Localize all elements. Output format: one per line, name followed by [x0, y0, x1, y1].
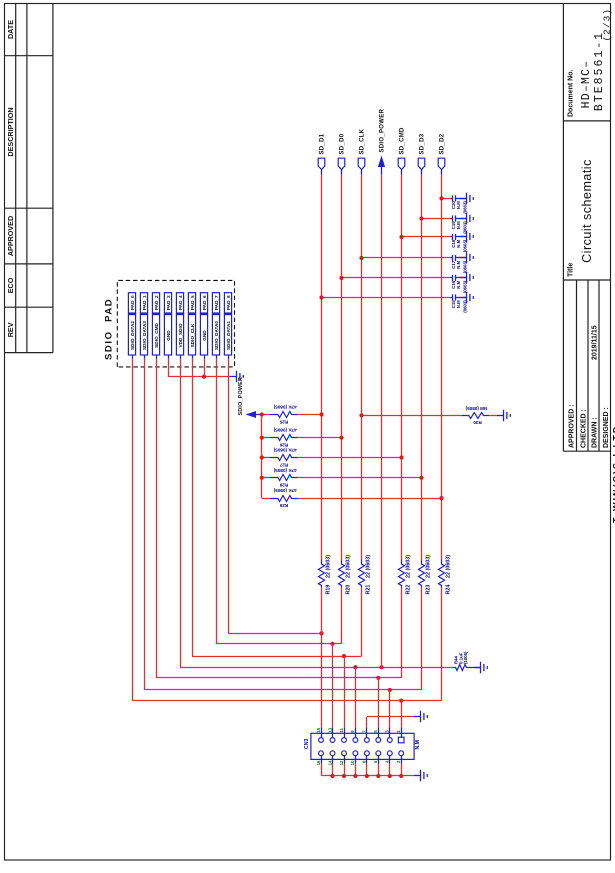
svg-text:47K (0805): 47K (0805) — [273, 448, 296, 453]
pad PAD_3 GND — [164, 293, 171, 359]
svg-text:15: 15 — [316, 727, 321, 732]
CN3 pin 9 — [350, 727, 358, 742]
svg-text:R26: R26 — [279, 443, 288, 448]
svg-text:R22: R22 — [406, 585, 412, 595]
resistor R22 22 — [399, 555, 412, 595]
svg-text:2019/11/15: 2019/11/15 — [592, 325, 599, 360]
svg-text:SD_D3: SD_D3 — [420, 133, 426, 154]
wire net SD_D0 — [341, 588, 343, 644]
svg-text:6: 6 — [373, 760, 378, 763]
svg-text:PAD_2: PAD_2 — [154, 295, 159, 310]
ground (C15) — [460, 292, 473, 304]
svg-text:47K (0805): 47K (0805) — [273, 468, 296, 473]
CN3 pin 12 — [339, 751, 347, 766]
svg-text:R27: R27 — [279, 462, 288, 467]
svg-text:13: 13 — [327, 727, 332, 732]
wire net SD_D1 — [321, 588, 323, 728]
svg-text:R19: R19 — [326, 585, 332, 595]
port SD_D2 — [438, 133, 446, 175]
junction rail — [260, 476, 264, 480]
CN3 pin 10 — [350, 751, 358, 766]
power arrow SDIO_POWER — [238, 377, 262, 418]
svg-text:R21: R21 — [366, 585, 372, 595]
svg-text:R25: R25 — [279, 419, 288, 424]
svg-text:22 (0603): 22 (0603) — [406, 555, 412, 578]
pad PAD_0 SDIO_DATA2 — [128, 293, 135, 359]
svg-text:16: 16 — [316, 760, 321, 765]
capacitor C18 — [402, 234, 468, 252]
wire net SD_CLK — [361, 588, 363, 657]
svg-text:R24: R24 — [446, 585, 452, 595]
capacitor C17 — [362, 255, 468, 273]
CN3 pin 16 — [316, 751, 324, 766]
CN3 pin 13 — [327, 727, 335, 742]
CN3 pin 11 — [339, 727, 347, 742]
title block — [563, 4, 610, 452]
connector CN3 — [311, 733, 414, 759]
ground (CN3 pin 7) — [414, 711, 427, 723]
capacitor C15 — [322, 294, 468, 312]
svg-text:R20: R20 — [346, 585, 352, 595]
ground (C19) — [460, 213, 473, 225]
junction rail — [260, 436, 264, 440]
svg-text:N.M: N.M — [456, 201, 461, 209]
ground (C20) — [460, 193, 473, 205]
junction SDIO_DATA1 / CN3 pin — [319, 631, 323, 635]
ground (CN3 even pins) — [414, 770, 427, 782]
svg-text:R28: R28 — [279, 483, 288, 488]
resistor R19 22 — [319, 555, 332, 595]
svg-text:2: 2 — [396, 760, 401, 763]
junction R27 — [399, 455, 403, 459]
svg-text:12: 12 — [339, 760, 344, 765]
wire net SD_CMD — [401, 588, 403, 678]
svg-text:22 (0603): 22 (0603) — [366, 555, 372, 578]
junction C19 — [419, 216, 423, 220]
svg-text:SD_CLK: SD_CLK — [360, 128, 366, 154]
svg-text:47K (0805): 47K (0805) — [273, 488, 296, 493]
svg-text:Title: Title — [568, 263, 575, 277]
svg-text:DRAWN :: DRAWN : — [592, 417, 599, 448]
port SD_CMD — [398, 127, 406, 175]
svg-text:GND: GND — [166, 330, 171, 341]
capacitor C20 — [442, 195, 468, 213]
svg-text:Circuit schematic: Circuit schematic — [580, 159, 594, 263]
svg-text:APPROVED: APPROVED — [6, 216, 15, 256]
svg-text:CHECKED :: CHECKED : — [581, 409, 588, 448]
svg-text:47K (0805): 47K (0805) — [273, 405, 296, 410]
capacitor C19 — [422, 215, 468, 233]
wire SDIO_DATA3 pad to bus — [144, 359, 146, 690]
junction VDD_SDIO / SDIO_POWER line — [379, 665, 383, 669]
junction R28 — [419, 476, 423, 480]
resistor R23 22 — [419, 555, 432, 595]
svg-text:10: 10 — [350, 760, 355, 765]
svg-text:R29: R29 — [279, 503, 288, 508]
svg-text:T-WIN(C)S.I LTD: T-WIN(C)S.I LTD — [612, 425, 615, 523]
svg-text:N.M: N.M — [456, 280, 461, 288]
svg-text:SDIO_DATA2: SDIO_DATA2 — [130, 321, 135, 350]
svg-text:BTE8561-1: BTE8561-1 — [593, 31, 606, 111]
resistor R21 22 — [359, 555, 372, 595]
resistor R20 22 — [339, 555, 352, 595]
resistor R26 47K pull-up — [262, 428, 342, 448]
junction C16 — [339, 276, 343, 280]
wire CN3 even pins ground bus — [321, 764, 323, 777]
wire net SD_D3 — [421, 588, 423, 690]
svg-text:(1005): (1005) — [463, 651, 468, 664]
pad PAD_7 SDIO_DATA0 — [212, 293, 219, 359]
junction SDIO_DATA2 / CN3 pin — [399, 699, 403, 703]
junction SDIO_CLK / CN3 pin — [342, 654, 346, 658]
svg-text:HD–MC–: HD–MC– — [580, 60, 593, 109]
resistor R30 NM pull-down — [362, 406, 498, 425]
svg-text:SD_D0: SD_D0 — [340, 133, 346, 154]
junction rail — [260, 455, 264, 459]
capacitor C16 — [342, 275, 468, 293]
resistor R24 22 — [439, 555, 452, 595]
svg-text:(2/3): (2/3) — [602, 8, 613, 42]
svg-text:REV: REV — [6, 322, 15, 337]
resistor R28 47K pull-up — [262, 468, 422, 488]
svg-text:NM (0805): NM (0805) — [465, 406, 487, 411]
svg-text:SDIO_CLK: SDIO_CLK — [190, 323, 195, 347]
svg-text:PAD_4: PAD_4 — [178, 295, 183, 310]
svg-text:22 (0603): 22 (0603) — [446, 555, 452, 578]
junction R29 — [439, 496, 443, 500]
svg-text:1: 1 — [396, 730, 401, 733]
svg-text:SDIO_CMD: SDIO_CMD — [154, 323, 159, 348]
svg-text:PAD_3: PAD_3 — [166, 295, 171, 310]
svg-text:SDIO_POWER: SDIO_POWER — [238, 377, 244, 416]
pad PAD_6 GND — [200, 293, 207, 359]
junction C20 — [439, 196, 443, 200]
svg-text:DATE: DATE — [6, 20, 15, 39]
svg-text:SDIO_DATA1: SDIO_DATA1 — [226, 321, 231, 350]
port SD_CLK — [358, 128, 366, 174]
port SD_D0 — [338, 133, 346, 175]
svg-text:GND: GND — [202, 330, 207, 341]
junction C18 — [399, 235, 403, 239]
revision table — [5, 4, 53, 353]
svg-text:SDIO PAD: SDIO PAD — [104, 298, 115, 360]
svg-text:SD_D1: SD_D1 — [320, 133, 326, 154]
CN3 pin 7 — [362, 727, 370, 742]
svg-text:N.M: N.M — [456, 221, 461, 229]
svg-text:ECO: ECO — [6, 277, 15, 293]
svg-text:22 (0603): 22 (0603) — [326, 555, 332, 578]
ground (SDIO PAD GND) — [230, 371, 243, 383]
svg-text:APPROVED :: APPROVED : — [569, 404, 576, 448]
svg-text:PAD_8: PAD_8 — [226, 295, 231, 310]
ground (R44) — [474, 662, 487, 674]
wire CN3 pin 1 branch — [401, 701, 403, 728]
svg-text:14: 14 — [327, 760, 332, 765]
CN3 pin 3 — [385, 727, 393, 742]
wire SDIO_CLK pad to bus — [192, 359, 194, 657]
svg-text:VDD_SDIO: VDD_SDIO — [178, 323, 183, 347]
junction C17 — [359, 256, 363, 260]
wire CN3 pin 7 to ground — [366, 717, 368, 727]
svg-text:22 (0603): 22 (0603) — [346, 555, 352, 578]
pad PAD_2 SDIO_CMD — [152, 293, 159, 359]
wire net SD_D2 — [441, 588, 443, 701]
ground (C17) — [460, 252, 473, 264]
svg-text:PAD_5: PAD_5 — [190, 295, 195, 310]
wire CN3 pin 11 branch — [344, 656, 346, 727]
pad PAD_8 SDIO_DATA1 — [224, 293, 231, 359]
wire CN3 pin 3 branch — [389, 690, 391, 727]
svg-text:PAD_7: PAD_7 — [214, 295, 219, 310]
svg-text:SDIO_DATA3: SDIO_DATA3 — [142, 321, 147, 350]
wire CN3 pin 13 branch — [332, 644, 334, 727]
svg-text:R30: R30 — [473, 420, 482, 425]
CN3 pin 14 — [327, 751, 335, 766]
wire GND pads to ground — [168, 359, 170, 377]
port SD_D1 — [318, 133, 326, 175]
port SD_D3 — [418, 133, 426, 175]
wire VDD_SDIO pad to bus — [180, 359, 182, 668]
junction SDIO_CMD / CN3 pin — [376, 676, 380, 680]
svg-text:SDIO_DATA0: SDIO_DATA0 — [214, 321, 219, 350]
CN3 pin 4 — [385, 751, 393, 764]
wire SDIO_DATA1 pad to bus — [228, 359, 230, 634]
junction R25 — [319, 412, 323, 416]
wire SDIO_DATA0 pad to bus — [216, 359, 218, 644]
svg-text:SD_D2: SD_D2 — [440, 133, 446, 154]
svg-text:CN3: CN3 — [304, 739, 310, 749]
wire CN3 pin 5 branch — [378, 678, 380, 727]
svg-text:PAD_6: PAD_6 — [202, 295, 207, 310]
pad PAD_1 SDIO_DATA3 — [140, 293, 147, 359]
pad PAD_4 VDD_SDIO — [176, 293, 183, 359]
svg-text:N.M: N.M — [415, 740, 421, 750]
svg-text:5: 5 — [373, 730, 378, 733]
svg-text:R23: R23 — [426, 585, 432, 595]
resistor R27 47K pull-up — [262, 448, 402, 468]
wire CN3 pin 9 branch — [355, 667, 357, 727]
svg-text:DESCRIPTION: DESCRIPTION — [6, 107, 15, 156]
svg-text:47K (0805): 47K (0805) — [273, 428, 296, 433]
svg-text:Document No.: Document No. — [568, 70, 575, 118]
junction C15 — [319, 295, 323, 299]
svg-text:PAD_1: PAD_1 — [142, 295, 147, 310]
pad PAD_5 SDIO_CLK — [188, 293, 195, 359]
CN3 pin 6 — [373, 751, 381, 764]
svg-text:SD_CMD: SD_CMD — [400, 127, 406, 155]
resistor R29 47K pull-up — [262, 488, 442, 508]
CN3 pin 8 — [362, 751, 370, 764]
junction R30/SD_CLK — [359, 413, 363, 417]
SDIO_POWER rail — [261, 415, 263, 499]
svg-text:22 (0603): 22 (0603) — [426, 555, 432, 578]
CN3 pin 2 — [396, 751, 404, 764]
svg-text:9: 9 — [350, 730, 355, 733]
svg-text:11: 11 — [339, 728, 344, 733]
junction SDIO_DATA0 / CN3 pin — [330, 642, 334, 646]
junction SDIO_DATA3 / CN3 pin — [388, 688, 392, 692]
junction rail — [260, 412, 264, 416]
svg-text:SDIO_POWER: SDIO_POWER — [380, 108, 386, 152]
svg-text:N.M: N.M — [456, 300, 461, 308]
CN3 pin 15 — [316, 727, 324, 742]
svg-text:DESIGNED :: DESIGNED : — [603, 407, 610, 448]
svg-text:N.M: N.M — [456, 260, 461, 268]
ground (C16) — [460, 272, 473, 284]
CN3 pin 1 — [396, 727, 404, 743]
wire SDIO_DATA2 pad to bus — [132, 359, 134, 701]
wire net SDIO_POWER — [381, 175, 383, 667]
svg-text:PAD_0: PAD_0 — [130, 295, 135, 310]
svg-text:N.M: N.M — [456, 239, 461, 247]
ground (R30) — [497, 410, 510, 422]
junction VDD_SDIO / CN3 pin — [353, 665, 357, 669]
ground (C18) — [460, 231, 473, 243]
wire SDIO_CMD pad to bus — [156, 359, 158, 678]
CN3 pin 5 — [373, 727, 381, 742]
SDIO PAD block — [117, 280, 234, 366]
resistor R25 47K pull-up — [262, 405, 322, 425]
resistor R44 0.1uF — [453, 651, 480, 670]
port SDIO_POWER — [378, 108, 386, 174]
junction R26 — [339, 436, 343, 440]
